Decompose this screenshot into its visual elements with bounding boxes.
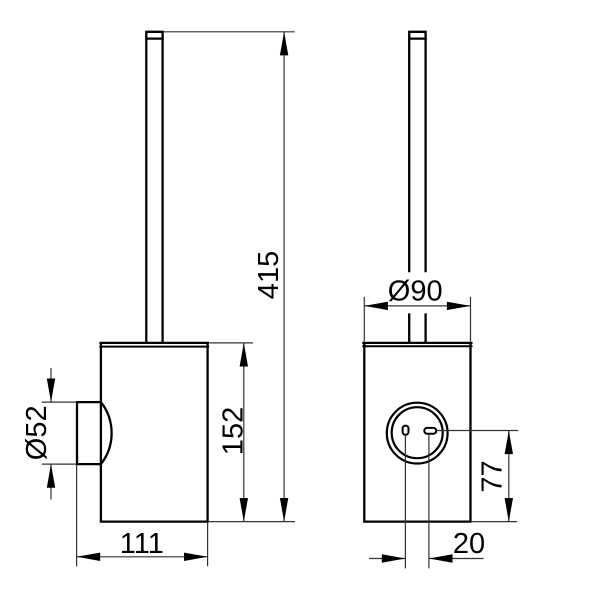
dimension line 415	[283, 32, 285, 522]
arrow diameter 90 left	[364, 302, 388, 310]
arrow 111 left	[77, 553, 101, 561]
dimension line 20 left tail	[369, 558, 405, 560]
front view: mounting plate inner circle	[392, 407, 443, 458]
dimension line 111	[77, 556, 208, 558]
dimension line 152	[243, 343, 245, 522]
extension line: mount left edge down to 111 dim	[76, 465, 78, 566]
extension line: container right width up to diameter 90 dim	[470, 297, 472, 342]
extension line: container bottom right to 415/152 dims	[209, 521, 295, 523]
side view: brush handle rod	[145, 32, 164, 343]
svg-text:111: 111	[120, 528, 164, 560]
front view: handle cap line	[408, 37, 427, 39]
side view: container rim top line	[99, 342, 209, 344]
extension line: mount top to diameter 52 dim	[42, 401, 76, 403]
leader line: right slot center to 77 dim	[437, 430, 519, 432]
svg-text:415: 415	[253, 251, 285, 299]
arrow 415 bottom	[280, 498, 288, 522]
svg-text:Ø90: Ø90	[388, 276, 443, 308]
side view: container body	[101, 343, 208, 522]
extension line: container left width up to diameter 90 dim	[363, 297, 365, 342]
arrow 77 bottom	[505, 498, 513, 522]
front view: brush handle rod upper part	[408, 32, 427, 272]
dimension line diameter 52 lower tail	[50, 464, 52, 499]
dimension line 77	[508, 431, 510, 522]
extension line: rim top right to 152 dim	[210, 342, 254, 344]
extension line: container right edge down to 111 dim	[207, 523, 209, 566]
extension line: mount bottom to diameter 52 dim	[42, 463, 76, 465]
extension line: left slot down to 20 dim	[404, 435, 406, 568]
front view: rod lower part below dim text gap	[409, 313, 425, 343]
front view: left screw slot	[403, 426, 409, 435]
side view: container rim inner line	[99, 346, 209, 348]
arrow diameter 52 top	[47, 379, 55, 403]
front view: container rim inner line	[362, 345, 472, 347]
front view: container body	[364, 343, 470, 522]
svg-text:20: 20	[453, 528, 485, 560]
arrow 111 right	[184, 553, 208, 561]
dimension line diameter 52 upper tail	[50, 368, 52, 402]
svg-text:77: 77	[477, 460, 509, 492]
arrow 415 top	[280, 32, 288, 56]
arrow diameter 90 right	[447, 302, 471, 310]
svg-text:152: 152	[217, 407, 249, 455]
side view: wall mount dome arc	[101, 402, 112, 464]
arrow 20 left	[382, 554, 406, 562]
arrow 152 top	[240, 343, 248, 367]
dimension line 20 right tail	[429, 558, 484, 560]
front view: right screw slot	[424, 428, 436, 434]
side view: wall mount bracket	[77, 402, 101, 464]
arrow 77 top	[505, 431, 513, 455]
extension line: top of rod to 415 dim	[164, 31, 295, 33]
front view: mounting plate outer circle	[387, 403, 448, 464]
side view: handle cap line	[145, 37, 164, 39]
arrow 152 bottom	[240, 498, 248, 522]
svg-text:Ø52: Ø52	[21, 405, 53, 460]
front view: container rim top line	[362, 342, 472, 344]
extension line: right slot down to 20 dim	[428, 434, 430, 568]
arrow 20 right	[429, 554, 453, 562]
arrow diameter 52 bottom	[47, 464, 55, 488]
extension line: container bottom right to 77 dim	[472, 521, 517, 523]
dimension line diameter 90	[364, 305, 470, 307]
